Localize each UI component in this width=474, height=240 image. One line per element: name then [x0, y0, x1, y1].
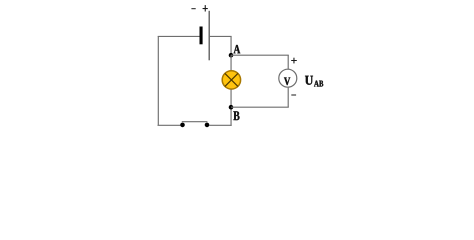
wire A to voltmeter branch	[231, 54, 289, 56]
battery minus label	[191, 8, 195, 9]
label A	[234, 45, 241, 53]
wire left vertical	[157, 36, 159, 125]
voltmeter U1	[279, 69, 297, 87]
node B	[229, 105, 234, 110]
wire voltmeter branch bottom vertical	[287, 88, 289, 108]
lamp L1	[222, 71, 240, 89]
wire right vertical down to A	[230, 36, 232, 55]
wire B to bottom	[230, 107, 232, 126]
wire bottom-left segment	[158, 124, 181, 126]
battery B1 positive plate	[208, 11, 210, 61]
wire voltmeter branch top vertical	[287, 55, 289, 69]
battery B1 negative plate	[200, 27, 203, 45]
node A	[229, 53, 234, 58]
wire top-left segment	[158, 35, 200, 37]
label B	[233, 111, 239, 120]
wire bottom-right segment	[209, 124, 232, 126]
wire B to voltmeter branch	[231, 106, 289, 108]
voltmeter minus label	[291, 95, 296, 96]
wire lamp to B	[230, 90, 232, 108]
voltmeter plus label	[291, 58, 297, 64]
wire battery to top-right corner	[209, 35, 231, 37]
label U_AB	[305, 76, 323, 87]
battery plus label	[203, 5, 208, 11]
wire A to lamp	[230, 55, 232, 70]
switch S1	[180, 122, 209, 128]
